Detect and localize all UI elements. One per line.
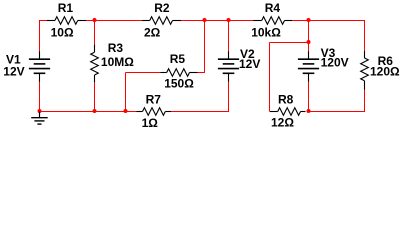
node H junction (V3 bottom / R8 right): [307, 109, 311, 113]
wire node B down to R5: [204, 21, 206, 73]
resistor R2: [142, 17, 181, 25]
wire R5 right lead to riser: [197, 72, 205, 74]
ground symbol: [31, 112, 48, 125]
resistor R1: [47, 17, 86, 25]
svg-text:R2: R2: [154, 1, 170, 15]
wire V1 top lead: [39, 20, 41, 52]
wire top rail: R1 to R2 through node A: [86, 20, 142, 22]
ground node junction: [38, 109, 42, 113]
wire V2 top lead: [228, 21, 230, 52]
node F junction (R5 branch to bottom rail): [124, 109, 128, 113]
wire bottom rail right: node H to R6 corner: [309, 111, 366, 113]
svg-text:120Ω: 120Ω: [370, 64, 400, 78]
svg-text:12V: 12V: [3, 65, 24, 79]
wire R8 riser down: [269, 43, 271, 112]
wire bottom rail: ground node to R7: [40, 111, 137, 113]
svg-text:2Ω: 2Ω: [144, 25, 161, 39]
battery V1: [29, 51, 50, 82]
wire V1 bottom to ground node: [39, 82, 41, 112]
wire R3 bottom: [94, 82, 96, 112]
wire R6 branch top: [364, 20, 366, 51]
svg-text:R4: R4: [265, 1, 281, 15]
wire R3 branch upper: [94, 21, 96, 46]
node E junction (R3 to bottom rail): [93, 109, 97, 113]
wire bottom rail: R7 to V2 corner: [171, 111, 229, 113]
battery V3: [298, 51, 319, 82]
node G junction (V3 top / R8 branch): [307, 40, 311, 44]
svg-text:12V: 12V: [239, 57, 260, 71]
wire node G to R8 riser: [270, 42, 309, 44]
wire R6 bottom: [364, 89, 366, 112]
svg-text:10kΩ: 10kΩ: [251, 25, 281, 39]
node A junction (top of R3): [93, 18, 97, 22]
wire V2 bottom lead: [228, 82, 230, 112]
node C junction (top of V2): [227, 18, 231, 22]
svg-text:120V: 120V: [321, 55, 349, 69]
resistor R8: [270, 108, 306, 116]
svg-text:R8: R8: [278, 92, 294, 106]
wire top rail: R2 to R4 through nodes B and C: [181, 20, 254, 22]
svg-text:10Ω: 10Ω: [51, 25, 74, 39]
resistor R3: [91, 45, 99, 82]
resistor R5: [161, 69, 198, 77]
resistor R7: [137, 108, 172, 116]
node D junction (top of V3 branch): [307, 18, 311, 22]
svg-text:R3: R3: [108, 41, 124, 55]
svg-text:1Ω: 1Ω: [142, 116, 159, 130]
wire top rail: left corner to R1: [40, 20, 48, 22]
resistor R6: [361, 51, 369, 90]
wire top rail: R4 to right corner: [292, 20, 365, 22]
svg-text:150Ω: 150Ω: [164, 77, 194, 91]
svg-text:R7: R7: [146, 93, 162, 107]
svg-text:R1: R1: [58, 1, 74, 15]
wire V3 branch: node D to node G: [308, 21, 310, 43]
wire V3 bottom lead: [308, 82, 310, 112]
wire V3 top lead: [308, 43, 310, 52]
node B junction (top of R5 branch): [203, 18, 207, 22]
wire R5 left lead to corner: [126, 72, 161, 74]
svg-text:12Ω: 12Ω: [271, 116, 294, 130]
svg-text:10MΩ: 10MΩ: [101, 55, 134, 69]
svg-text:R5: R5: [170, 52, 186, 66]
wire R5 corner down to bottom rail: [125, 73, 127, 112]
battery V2: [218, 51, 239, 82]
resistor R4: [253, 17, 292, 25]
